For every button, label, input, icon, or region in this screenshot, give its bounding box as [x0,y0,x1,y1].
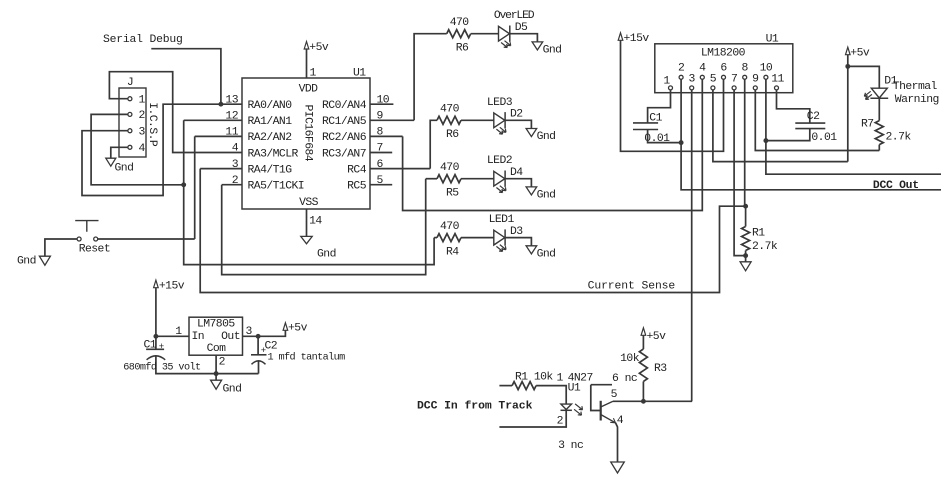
wire LM18200 pin8 to R1 [744,79,746,206]
svg-text:LM18200: LM18200 [701,48,746,60]
svg-text:470: 470 [440,104,460,116]
svg-text:+: + [159,342,164,352]
wire VSS pin14 to ground [306,209,308,236]
wire ground bus C1-Com-C2 [156,357,259,374]
svg-text:+15v: +15v [624,33,650,45]
wire RC2 pin8 [370,135,403,137]
wire C1 to pin2 net [648,130,682,143]
svg-text:RA4/T1G: RA4/T1G [248,164,293,176]
IC U1 LM18200 body [655,44,793,93]
wire RC4 pin6 [370,168,430,170]
wire J pin4 to ground [111,147,128,158]
svg-text:+5v: +5v [309,42,329,54]
wire +15v to LM18200 pin6 [621,40,724,151]
wire J pin1 to RA3/MCLR [109,72,242,153]
svg-text:R6: R6 [456,43,469,55]
transistor of optocoupler 4N27 [600,401,602,421]
svg-text:Warning: Warning [895,94,939,106]
wire RA4 Current Sense net [200,169,745,293]
svg-text:Com: Com [207,343,227,355]
ground at opto emitter [611,462,625,473]
power +15v at LM7805 [154,280,159,288]
wire opto pin6 stub [591,384,612,386]
svg-text:0.01: 0.01 [811,132,837,144]
wire RA2 pin11 row [195,135,242,137]
svg-text:In: In [192,331,205,343]
LED D2 [494,113,505,128]
junction C2 / pin10 net [763,138,768,143]
svg-text:LM7805: LM7805 [197,319,235,331]
ground at Reset [39,256,50,265]
wire RA5 to LED2 resistor [222,179,426,275]
wire LM18200 pin11 to C2 [777,90,810,123]
resistor R6 470 [437,116,461,124]
connector J pin 2 circle [128,112,132,116]
svg-text:Serial Debug: Serial Debug [103,34,183,46]
svg-text:9: 9 [752,73,759,85]
LM18200 pin 6 circle [722,75,726,79]
LM18200 pin 9 circle [753,86,757,90]
resistor R4 470 [437,234,461,242]
wire R4 to D3 [461,237,494,239]
svg-text:4: 4 [139,143,146,155]
wire RC5 pin5 stub [370,184,392,186]
wire LM18200 pin7 to ground net [734,90,746,256]
LED D5 [499,26,510,41]
svg-text:+15v: +15v [159,280,185,292]
LED of optocoupler 4N27 [561,404,572,409]
resistor R5 470 [437,175,461,183]
svg-text:2.7k: 2.7k [886,132,912,144]
wire D3 to ground [505,238,531,246]
capacitor C2 (bootstrap 0.01) [795,123,825,129]
junction J pin2 / RA1 net [181,182,186,187]
svg-text:C2: C2 [265,341,278,353]
wire LM7805 Out to +5v [243,330,286,336]
wire C2 to ground bus [258,361,260,374]
wire J pin2 to RA1 net [91,114,184,184]
wire LM18200 pin5 to +5v [713,90,848,162]
svg-text:Thermal: Thermal [893,81,938,93]
svg-text:470: 470 [440,162,460,174]
junction pin8 / R1 / Current Sense [743,204,748,209]
power +15v at LM18200 [618,33,623,41]
svg-text:D5: D5 [515,22,528,34]
pushbutton Reset [75,221,98,232]
wire +5v to D1 anode [848,66,880,88]
svg-text:4: 4 [232,143,239,155]
wire D1 cathode to R7 [878,98,880,120]
wire RA5 pin2 row [222,184,242,186]
svg-text:6 nc: 6 nc [612,373,637,385]
wire LM18200 pin3 to opto collector [691,90,693,401]
wire +15v to LM7805 In and C1 [155,288,157,350]
wire Out to C2 tantalum [257,336,259,355]
svg-text:J: J [127,77,133,89]
wire RC0 pin10 stub [370,103,393,105]
svg-text:4: 4 [617,415,624,427]
capacitor C1 (bootstrap 0.01) [633,123,658,130]
svg-text:RC2/AN6: RC2/AN6 [322,132,367,144]
svg-text:Gnd: Gnd [537,131,556,143]
junction +15v / pin1 / C1 [153,334,158,339]
svg-text:LED3: LED3 [487,97,513,109]
svg-text:11: 11 [771,73,784,85]
svg-text:Gnd: Gnd [223,384,242,396]
LM18200 pin 1 circle [669,86,673,90]
svg-text:Gnd: Gnd [537,190,556,202]
svg-text:RC0/AN4: RC0/AN4 [322,100,367,112]
svg-text:2: 2 [139,110,146,122]
LM18200 pin 4 circle [700,75,704,79]
svg-text:RC4: RC4 [347,164,367,176]
ground at D3 [526,246,537,254]
svg-text:R5: R5 [446,188,459,200]
svg-text:LED2: LED2 [487,155,513,167]
svg-text:1: 1 [175,326,182,338]
LED D1 thermal warning [871,88,887,98]
junction Serial Debug / pin13 [218,102,223,107]
wire C2 to pin10 net [766,129,810,141]
svg-text:13: 13 [225,94,238,106]
wire emitter to ground [616,423,618,462]
wire LM18200 pin10 DCC Out [766,79,941,174]
wire D5 to ground [510,34,538,42]
svg-text:Out: Out [221,331,240,343]
svg-text:D2: D2 [510,109,523,121]
svg-text:R7: R7 [861,119,874,131]
svg-text:RA0/AN0: RA0/AN0 [248,100,293,112]
ground at D5 [532,42,543,50]
svg-text:1: 1 [663,76,670,88]
svg-text:VDD: VDD [299,84,319,96]
svg-text:5: 5 [710,73,717,85]
wire R1 to opto LED anode [536,386,566,405]
wire RA5 net to LED2 resistor [426,178,437,180]
wire RC2 pin8 to LM18200 pin4 [403,79,703,210]
wire +5v to R3 [642,335,644,349]
op-amp U1 PIC16F684 body [242,78,370,209]
ground at D4 [526,187,537,195]
junction R1 bottom / pin7 [743,253,748,258]
LM18200 pin 10 circle [764,75,768,79]
svg-text:OverLED: OverLED [494,10,535,22]
ground at D2 [526,129,537,137]
junction C1 / pin2 net [679,140,684,145]
svg-text:1: 1 [557,373,564,385]
power +5v at LM7805 out [283,323,288,331]
wire R3 bottom to collector [642,381,644,401]
svg-text:Gnd: Gnd [537,249,556,261]
LM18200 pin 3 circle [690,86,694,90]
wire R7 bottom to pin9 net [878,145,880,151]
resistor R7 2.7k [875,121,883,145]
svg-text:RC3/AN7: RC3/AN7 [322,148,366,160]
power +5v thermal [846,47,851,55]
svg-text:R6: R6 [446,129,459,141]
connector J (I.C.S.P) body [119,88,146,157]
svg-text:680mfd 35 volt: 680mfd 35 volt [123,362,201,374]
regulator LM7805 body [189,317,243,355]
svg-text:2: 2 [219,357,226,369]
LM18200 pin 5 circle [711,86,715,90]
svg-text:Current Sense: Current Sense [588,281,676,293]
svg-text:Gnd: Gnd [17,256,36,268]
svg-text:8: 8 [742,62,749,74]
svg-text:U1: U1 [568,382,581,394]
wire opto LED cathode to DCC In lower lead [499,410,566,427]
wire LM18200 pin1 to C1 [648,90,671,123]
svg-text:14: 14 [309,215,322,227]
svg-text:DCC Out: DCC Out [873,180,919,192]
wire RA1 to LED1 resistor [184,120,434,264]
svg-text:10k: 10k [620,353,640,365]
svg-text:3: 3 [689,73,696,85]
wire R1 bottom lead [745,251,747,262]
svg-text:RC5: RC5 [347,181,367,193]
svg-text:+5v: +5v [647,331,667,343]
wire RA4 pin3 row [200,168,242,170]
resistor R6 470 [447,30,471,38]
svg-text:+5v: +5v [288,322,308,334]
svg-text:Gnd: Gnd [317,249,336,261]
svg-text:7: 7 [731,73,737,85]
wire to LM7805 pin1 [156,335,189,337]
svg-text:470: 470 [450,17,470,29]
junction collector / R3 [641,399,646,404]
svg-text:1 mfd tantalum: 1 mfd tantalum [268,352,346,364]
wire RC1 pin9 [370,119,414,121]
junction +5v / D1 [845,64,850,69]
wire Serial Debug to RA0 pin13 [151,49,221,104]
svg-text:RA5/T1CKI: RA5/T1CKI [248,181,305,193]
svg-text:I.C.S.P: I.C.S.P [146,102,158,147]
svg-text:Gnd: Gnd [115,163,134,175]
Reset contact circle left [77,237,81,241]
wire RA1 pin12 row [184,119,242,121]
svg-text:R1 10k: R1 10k [515,372,553,384]
svg-text:LED1: LED1 [489,214,515,226]
ground at R1 [740,262,751,271]
svg-text:1: 1 [139,95,146,107]
wire Com pin2 to ground [215,355,217,380]
LED D3 [494,230,505,245]
wire RC4 pin6 up to LED3 resistor [430,120,437,168]
LM18200 pin 11 circle [775,86,779,90]
resistor R1 10k (opto) [512,382,536,390]
svg-text:2: 2 [557,415,564,427]
svg-text:RC1/AN5: RC1/AN5 [322,116,367,128]
ground at PIC VSS [301,236,312,243]
connector J pin 3 circle [128,129,132,133]
power +5v at PIC VDD [304,42,309,50]
junction Com / ground bus [214,371,219,376]
svg-text:R4: R4 [446,246,459,258]
svg-text:RA2/AN2: RA2/AN2 [248,132,293,144]
LED D4 [494,171,505,186]
LM18200 pin 7 circle [732,86,736,90]
wire RC3 pin7 stub [370,152,392,154]
connector J pin 1 circle [128,97,132,101]
svg-text:Reset: Reset [79,244,110,256]
wire R1 top lead [745,206,747,226]
svg-text:D4: D4 [510,167,523,179]
wire R6 to D2 [461,119,494,121]
wire DCC In upper lead [499,385,512,387]
svg-text:DCC In from Track: DCC In from Track [417,401,533,413]
svg-text:U1: U1 [766,34,779,46]
svg-text:2.7k: 2.7k [752,241,778,253]
wire R5 to D4 [461,178,494,180]
wire +5v down to pin5 net [847,55,849,162]
wire RC1 pin9 up to OverLED resistor [414,34,447,121]
ground at LM7805 [211,380,222,389]
svg-text:D3: D3 [510,226,523,238]
svg-text:R3: R3 [654,363,667,375]
svg-text:PIC16F684: PIC16F684 [302,105,314,162]
wire opto pin6 to base [591,385,601,411]
svg-text:C1: C1 [649,113,662,125]
svg-text:4: 4 [699,62,706,74]
svg-text:VSS: VSS [299,197,319,209]
wire D2 to ground [505,120,531,128]
wire +5v to VDD pin1 [306,49,308,78]
power +5v at R3 [641,328,646,336]
ground at J pin4 [106,158,116,166]
wire Reset to RA2 net [98,238,195,240]
svg-text:R1: R1 [752,228,765,240]
connector J pin 4 circle [128,145,132,149]
svg-text:C2: C2 [807,111,820,123]
junction Out / C2 tantalum [256,334,261,339]
resistor R1 2.7k [742,227,750,251]
Reset contact circle right [94,237,98,241]
wire Reset to ground [45,239,77,256]
wire RA1 net to LED1 resistor [434,237,437,239]
svg-text:3 nc: 3 nc [558,440,583,452]
svg-text:3: 3 [139,127,146,139]
svg-text:470: 470 [440,221,460,233]
svg-text:Gnd: Gnd [543,45,562,57]
svg-text:RA1/AN1: RA1/AN1 [248,116,293,128]
wire R6 to D5 [471,33,499,35]
svg-text:5: 5 [611,389,618,401]
wire LM18200 pin9 to R7 [755,90,879,151]
wire RA2 to Reset [194,136,196,239]
svg-text:+5v: +5v [850,47,870,59]
resistor R3 10k [639,349,647,381]
wire collector to LM18200 pin3 net [613,400,692,402]
svg-text:RA3/MCLR: RA3/MCLR [248,148,299,160]
LM18200 pin 8 circle [743,75,747,79]
svg-text:2: 2 [678,62,685,74]
wire D4 to ground [505,179,531,187]
LM18200 pin 2 circle [679,75,683,79]
wire LM18200 pin2 DCC Out [681,79,941,190]
wire J pin3 to RA0/AN0 [82,104,242,195]
svg-text:6: 6 [720,62,727,74]
